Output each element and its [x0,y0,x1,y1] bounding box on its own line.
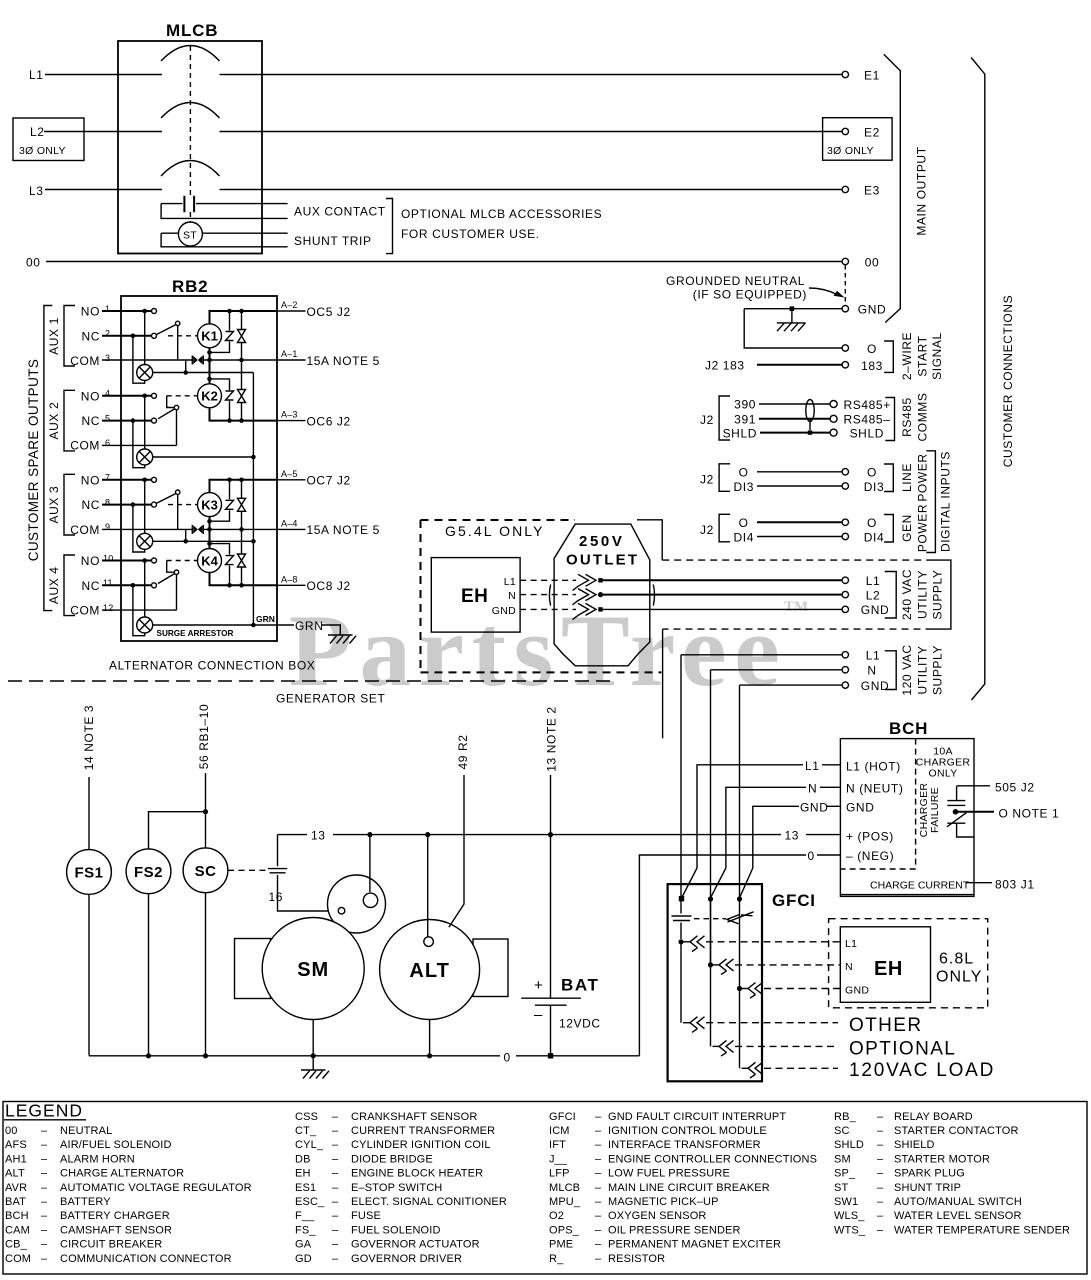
junction FS2 0 [146,1053,151,1058]
label 120 VAC UTILITY SUPPLY [900,644,945,695]
svg-text:RESISTOR: RESISTOR [608,1253,665,1265]
junction NC11 [131,583,136,588]
svg-text:3: 3 [105,353,110,363]
bracket AUX 1 [64,306,75,367]
wire 803 J1 [966,882,992,884]
svg-text:TM: TM [784,599,808,615]
junction ground tap [790,306,795,311]
junction GFCI N [708,896,713,901]
junction K2 zener elbow [207,377,212,382]
wire DI3 [757,485,842,487]
breaker pole 2 arc [161,103,220,119]
svg-text:ELECT. SIGNAL CONITIONER: ELECT. SIGNAL CONITIONER [351,1196,507,1208]
bracket gen power [884,515,893,543]
svg-text:NO: NO [81,389,100,403]
zener Z1 [210,311,234,352]
svg-text:12: 12 [103,603,113,613]
svg-text:ALT: ALT [409,960,449,982]
svg-text:–: – [332,1239,339,1251]
wire BCH GND [753,806,841,868]
svg-text:250V: 250V [579,533,624,550]
svg-text:MAIN OUTPUT: MAIN OUTPUT [915,146,929,235]
svg-text:O2: O2 [549,1210,564,1222]
svg-text:–: – [41,1168,48,1180]
junction BAT 0 bus [548,1053,553,1058]
svg-text:11: 11 [103,578,113,588]
svg-text:OIL PRESSURE SENDER: OIL PRESSURE SENDER [608,1224,741,1236]
GFCI breaker contact [672,899,727,939]
svg-text:L1: L1 [29,68,44,82]
terminal GND [842,303,886,317]
svg-text:120VAC LOAD: 120VAC LOAD [849,1060,995,1081]
svg-text:GND: GND [846,801,874,815]
optional region boundary stub [662,629,664,738]
junction GFCI GND [737,896,742,901]
main output bracket [884,54,901,322]
svg-text:00: 00 [865,256,880,270]
battery charger BCH [840,719,974,896]
svg-text:ESC_: ESC_ [295,1196,325,1208]
bracket J2 RS485 [719,396,730,440]
aux contact bars [184,196,194,213]
tap COM to surge [185,360,187,373]
wire COM12 [102,609,177,611]
svg-text:12VDC: 12VDC [559,1017,601,1031]
fuel solenoid FS2 [126,849,171,894]
wire NC8 [102,504,152,506]
svg-text:NC: NC [81,329,100,343]
svg-text:CRANKSHAFT SENSOR: CRANKSHAFT SENSOR [351,1111,477,1123]
junction BAT 13 [548,832,553,837]
plug contact N [573,589,604,605]
wire K1 bottom riser [209,348,211,360]
mech link K4 dashed [167,560,198,562]
svg-text:–: – [41,1139,48,1151]
twisted pair shield ellipse [806,400,814,422]
svg-text:A–2: A–2 [281,300,298,310]
svg-text:–: – [332,1153,339,1165]
svg-text:START: START [916,335,930,376]
svg-text:183: 183 [861,359,883,373]
terminal RS485+ [830,398,891,412]
svg-text:G5.4L ONLY: G5.4L ONLY [445,523,545,539]
wire surge4 to GRN [153,624,277,626]
bracket RS485 comms [885,398,894,441]
bracket AUX 2 [64,390,75,451]
svg-text:F__: F__ [295,1210,315,1222]
svg-text:AIR/FUEL SOLENOID: AIR/FUEL SOLENOID [60,1139,172,1151]
junction SM 0 [311,1053,316,1058]
svg-text:–: – [534,1007,543,1024]
svg-text:13 NOTE 2: 13 NOTE 2 [545,706,559,771]
svg-text:L2: L2 [866,588,881,602]
svg-text:PME: PME [549,1239,573,1251]
row OPTIONAL out [711,965,839,1056]
svg-text:NEUTRAL: NEUTRAL [60,1125,112,1137]
surge arrestor aux2 [137,449,153,465]
wire 120VAC L1 [681,654,842,656]
svg-text:MLCB: MLCB [166,21,218,40]
wire 120VAC GND [740,684,843,686]
junction A2 bus varistor [239,309,244,314]
svg-text:DIODE BRIDGE: DIODE BRIDGE [351,1153,433,1165]
svg-text:A–8: A–8 [281,574,298,584]
svg-text:–: – [595,1253,602,1265]
svg-text:J2 183: J2 183 [705,359,745,373]
svg-text:SHIELD: SHIELD [894,1139,935,1151]
contact NO1 [152,309,157,314]
svg-text:13: 13 [311,829,326,843]
svg-text:K2: K2 [201,389,218,404]
svg-text:–: – [595,1153,602,1165]
svg-text:L2: L2 [30,125,45,139]
svg-text:E2: E2 [864,126,880,140]
svg-text:RELAY BOARD: RELAY BOARD [894,1111,973,1123]
wire NO10 [102,560,152,562]
svg-text:00: 00 [26,256,41,270]
svg-text:BCH: BCH [889,719,928,738]
wire BAT bottom [550,1005,552,1056]
svg-text:FAILURE: FAILURE [929,787,941,833]
wire 240VAC L1 [603,579,842,581]
svg-text:–: – [877,1168,884,1180]
customer spare outputs bracket [44,306,52,611]
svg-text:120 VAC: 120 VAC [900,644,914,695]
svg-text:GND: GND [861,679,889,693]
svg-text:EH: EH [874,958,903,980]
svg-text:–: – [595,1111,602,1123]
svg-text:N (NEUT): N (NEUT) [846,782,903,796]
svg-text:AFS: AFS [5,1139,27,1151]
svg-text:SM: SM [834,1153,851,1165]
jog BCH L1 to GFCI [682,868,697,898]
svg-text:ENGINE CONTROLLER CONNECTIONS: ENGINE CONTROLLER CONNECTIONS [608,1153,817,1165]
ground symbol SM [301,1070,329,1079]
surge out aux3 [153,540,254,542]
junction NO1 [142,309,147,314]
svg-text:COM: COM [5,1253,31,1265]
svg-text:O: O [739,516,749,530]
relay coil K3 [198,493,222,517]
wire ALT bottom [429,1020,431,1056]
svg-text:FS_: FS_ [295,1224,316,1236]
svg-text:O: O [739,465,749,479]
wire bendix drop [369,835,371,892]
wire BCH L1 hot [697,765,840,868]
junction zener2 A-3 [227,418,232,423]
junction varistor3 A-4 [239,527,244,532]
wire GRN out [277,625,340,635]
svg-text:J2: J2 [700,473,714,487]
legend border [3,1102,1087,1275]
relay arm K4 [174,570,178,574]
svg-text:–: – [595,1239,602,1251]
battery BAT [521,976,600,1031]
svg-text:MPU_: MPU_ [549,1196,581,1208]
svg-text:L1: L1 [805,759,820,773]
terminal RS485- [830,413,890,427]
row L1 out [678,936,840,952]
svg-text:J2: J2 [700,413,714,427]
svg-text:K3: K3 [201,497,218,512]
svg-text:IFT: IFT [549,1139,566,1151]
svg-text:ENGINE BLOCK HEATER: ENGINE BLOCK HEATER [351,1168,483,1180]
svg-text:ALTERNATOR CONNECTION BOX: ALTERNATOR CONNECTION BOX [109,659,315,673]
wire 505 J2 [957,785,990,787]
contact NO7 [152,477,157,482]
svg-text:NC: NC [81,414,100,428]
svg-text:BATTERY CHARGER: BATTERY CHARGER [60,1210,170,1222]
svg-text:SUPPLY: SUPPLY [931,569,945,619]
svg-text:–: – [595,1196,602,1208]
svg-text:COM: COM [70,354,100,368]
label 240 VAC UTILITY SUPPLY [900,569,945,620]
terminal E1 [842,69,880,83]
junction ALT 0 [427,1053,432,1058]
svg-text:AUX 3: AUX 3 [47,486,61,524]
zener Z3 [210,480,234,521]
label RS485 COMMS [900,393,930,442]
terminal O DI3 [842,466,877,480]
wire 120 N drop [710,670,712,963]
wire DI4-O [757,521,842,523]
terminal 240 GND [842,603,889,617]
relay coil K4 [198,549,222,573]
svg-text:–: – [877,1210,884,1222]
surge loop aux1 [133,336,145,383]
shunt trip circle ST [178,222,202,246]
svg-text:COMMS: COMMS [916,393,930,442]
contact NC5 [152,418,157,423]
exit A-4 [277,518,380,537]
svg-text:GND: GND [861,603,889,617]
GFCI box [668,884,816,1081]
svg-text:3Ø ONLY: 3Ø ONLY [827,145,874,157]
varistor V3 [238,480,246,530]
svg-text:A–3: A–3 [281,410,298,420]
svg-text:E3: E3 [864,184,880,198]
svg-text:GOVERNOR DRIVER: GOVERNOR DRIVER [351,1253,462,1265]
svg-text:–: – [877,1182,884,1194]
junction zener4 A-8 [227,583,232,588]
svg-text:–: – [332,1210,339,1222]
shunt trip wires [161,233,288,247]
MLCB internal dashed actuator line [189,46,191,222]
svg-text:N: N [808,781,817,795]
wire L1 [45,74,842,76]
wire 0 bus [89,1055,639,1057]
svg-text:AUX CONTACT: AUX CONTACT [294,205,386,219]
svg-text:SHUNT TRIP: SHUNT TRIP [294,234,372,248]
legend column 2 [295,1111,507,1265]
wire COM9 [102,528,192,530]
svg-text:FOR CUSTOMER USE.: FOR CUSTOMER USE. [401,227,540,241]
svg-text:SPARK PLUG: SPARK PLUG [894,1168,965,1180]
svg-text:–: – [595,1125,602,1137]
surge out aux1 [153,372,254,374]
wire COM3 [102,359,192,361]
RB2 box [121,296,277,641]
junction varistor4 A-8 [239,583,244,588]
svg-text:FS2: FS2 [134,864,163,881]
ground symbol at GND [777,309,806,332]
svg-text:INTERFACE TRANSFORMER: INTERFACE TRANSFORMER [608,1139,761,1151]
svg-text:L1: L1 [845,938,857,950]
jog BCH GND to GFCI [740,868,753,898]
svg-text:LFP: LFP [549,1168,570,1180]
svg-text:AVR: AVR [5,1182,27,1194]
junction NO4 [142,394,147,399]
wire SM bottom [312,1020,314,1070]
pinion circle [338,907,345,914]
svg-text:BAT: BAT [5,1196,26,1208]
svg-text:E–STOP SWITCH: E–STOP SWITCH [351,1182,442,1194]
svg-text:N: N [845,961,853,973]
svg-text:–: – [332,1168,339,1180]
plug contact GND [573,603,603,619]
svg-text:STARTER MOTOR: STARTER MOTOR [894,1153,990,1165]
svg-text:CYL_: CYL_ [295,1139,324,1151]
junction GFCI L1 [679,896,684,901]
svg-text:8: 8 [105,497,110,507]
terminal O DI4 [842,516,877,530]
wire SC bottom [205,893,207,1056]
svg-text:GD: GD [295,1253,312,1265]
svg-text:BATTERY: BATTERY [60,1196,111,1208]
svg-text:BCH: BCH [5,1210,29,1222]
svg-text:MAIN LINE CIRCUIT BREAKER: MAIN LINE CIRCUIT BREAKER [608,1182,770,1194]
wire 49 R2 [449,775,464,927]
wire K2 top riser [209,360,211,384]
wire NC11 [102,584,152,586]
wire BAT top [550,775,552,998]
surge arrestor aux3 [137,533,153,549]
svg-text:2–WIRE: 2–WIRE [900,332,914,380]
svg-text:15A NOTE 5: 15A NOTE 5 [307,523,380,537]
wire 120 GND drop [739,685,741,987]
svg-text:GENERATOR SET: GENERATOR SET [276,692,385,706]
junction varistor1 A-1 [239,358,244,363]
surge out aux2 [153,456,254,458]
svg-text:ST: ST [183,230,197,242]
wire EH L1 dashed [520,579,576,581]
junction 13 bendix [367,832,372,837]
svg-text:L1: L1 [866,649,881,663]
svg-text:–: – [332,1196,339,1208]
svg-text:–: – [41,1196,48,1208]
wire EH GND dashed [520,608,576,610]
svg-text:3Ø ONLY: 3Ø ONLY [19,145,66,157]
svg-text:ALT: ALT [5,1168,25,1180]
svg-text:–: – [595,1168,602,1180]
junction K1 A-1 [207,358,212,363]
starter contactor SC [183,848,228,893]
svg-text:UTILITY: UTILITY [916,646,930,695]
bracket AUX 4 [64,555,75,616]
svg-text:–: – [877,1153,884,1165]
wire ALT drop [427,835,429,937]
relay arm K1 [156,325,175,335]
svg-text:CIRCUIT BREAKER: CIRCUIT BREAKER [60,1239,162,1251]
svg-text:ST: ST [834,1182,848,1194]
mech link K3 dashed [168,504,198,506]
svg-text:LEGEND: LEGEND [5,1101,83,1121]
bracket J2 DI4 [719,514,730,542]
svg-text:15A NOTE 5: 15A NOTE 5 [307,354,380,368]
zener Z2 [210,379,234,421]
svg-text:–: – [41,1253,48,1265]
svg-text:DI4: DI4 [864,530,884,544]
aux contact wires [161,204,288,219]
svg-text:–: – [41,1153,48,1165]
svg-text:NC: NC [81,498,100,512]
250V outlet outline [549,524,654,666]
svg-text:1: 1 [105,304,110,314]
svg-text:A–1: A–1 [281,349,298,359]
wire 120 L1 drop [680,655,682,897]
svg-text:CHARGE CURRENT: CHARGE CURRENT [870,880,970,892]
svg-text:803 J1: 803 J1 [995,878,1035,892]
row 120VAC LOAD out [740,989,839,1079]
svg-text:O: O [867,466,877,480]
relay arm K2 [174,405,178,409]
svg-text:K4: K4 [201,553,218,568]
svg-text:OPTIONAL MLCB ACCESSORIES: OPTIONAL MLCB ACCESSORIES [401,207,602,221]
wire FS2 bottom [148,894,150,1056]
exit A-8 [277,574,351,593]
svg-text:DB: DB [295,1153,311,1165]
svg-text:SHLD: SHLD [850,427,884,441]
junction K3 riser elbow [207,519,212,524]
wire DI4 [757,536,842,538]
terminal 183 [842,359,883,373]
svg-text:–: – [41,1239,48,1251]
wire A-1 [203,359,277,361]
svg-text:–: – [877,1139,884,1151]
mech link SC dashed [228,869,266,871]
svg-text:OC7 J2: OC7 J2 [307,474,351,488]
svg-text:OC8 J2: OC8 J2 [307,579,351,593]
wire 391 [759,418,830,420]
svg-text:LINE: LINE [900,463,914,492]
svg-text:LOW FUEL PRESSURE: LOW FUEL PRESSURE [608,1168,730,1180]
svg-text:SURGE ARRESTOR: SURGE ARRESTOR [157,629,234,638]
arrow to neutral link [809,288,837,295]
svg-text:N: N [508,590,516,602]
svg-text:SHLD: SHLD [834,1139,864,1151]
wire 240VAC GND [603,608,842,610]
svg-text:FUSE: FUSE [351,1210,381,1222]
bracket optional MLCB accessories [386,199,393,254]
svg-text:SM: SM [297,959,329,981]
bracket 240VAC [885,572,897,619]
wire NO7 [102,479,152,481]
wire K3 top riser and A-5 bus [210,480,278,493]
svg-text:SP_: SP_ [834,1168,856,1180]
row GND out [737,983,840,999]
svg-text:CSS: CSS [295,1111,318,1123]
wire BCH neg 0 [639,855,840,1056]
svg-text:OUTLET: OUTLET [566,552,639,569]
svg-text:(IF SO EQUIPPED): (IF SO EQUIPPED) [693,288,807,302]
svg-text:14 NOTE 3: 14 NOTE 3 [82,705,96,770]
svg-text:RS485+: RS485+ [844,398,891,412]
svg-text:STARTER CONTACTOR: STARTER CONTACTOR [894,1125,1019,1137]
svg-text:EH: EH [295,1168,311,1180]
surge arrestor aux4 [137,617,153,633]
relay coil K2 [198,384,222,408]
svg-text:AUX 2: AUX 2 [47,402,61,440]
